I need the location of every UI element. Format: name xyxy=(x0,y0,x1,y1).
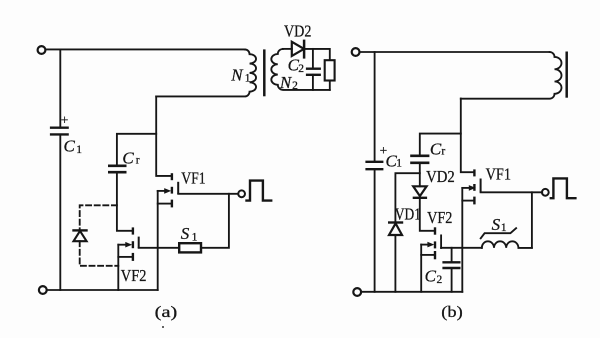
diode VD2 (b) xyxy=(413,186,427,198)
wire left rail upper (a) xyxy=(59,49,61,127)
inductor S1 (b) xyxy=(482,241,532,248)
transformer secondary N2 (a) xyxy=(271,49,330,90)
svg-text:C: C xyxy=(64,136,76,155)
svg-text:VF2: VF2 xyxy=(427,208,452,227)
svg-text:S: S xyxy=(181,224,190,243)
resistor S1 (a) xyxy=(179,243,201,252)
transistor VF1 (a) xyxy=(158,173,179,207)
wire VF2 source down (a) xyxy=(117,245,119,290)
diode VD1 (b) xyxy=(388,223,403,236)
svg-text:2: 2 xyxy=(298,63,304,75)
terminal input+ (a) xyxy=(38,46,46,54)
wire VF2 gate to S1 (b) xyxy=(441,247,482,249)
svg-text:C: C xyxy=(122,149,134,168)
wire left rail lower (a) xyxy=(59,134,61,290)
wire top rail (b) xyxy=(360,51,550,53)
transformer core (b) xyxy=(565,52,568,98)
wire left rail lower (b) xyxy=(374,169,376,292)
capacitor C1 (b) xyxy=(365,162,383,169)
transformer primary N1 (a) xyxy=(156,49,256,96)
capacitor C1 (a) xyxy=(50,128,69,135)
wire VD1 branch lower (b) xyxy=(394,235,396,292)
wire secondary top right segment (a) xyxy=(304,49,330,60)
terminal input+ (b) xyxy=(352,48,360,56)
speck comma (a) xyxy=(162,326,164,328)
svg-text:VF1: VF1 xyxy=(181,169,205,188)
terminal input- (a) xyxy=(39,286,47,294)
wire VF1 source down (a) xyxy=(157,191,159,290)
svg-text:1: 1 xyxy=(245,73,251,85)
wire VF2 source down (b) xyxy=(420,245,422,292)
wire bottom rail (a) xyxy=(47,289,158,291)
svg-text:N: N xyxy=(279,73,293,92)
svg-text:r: r xyxy=(441,146,445,158)
svg-text:1: 1 xyxy=(76,144,82,156)
wire Cr to VD2 (b) xyxy=(419,163,421,187)
capacitor C2 (a) xyxy=(306,49,321,90)
diode body (a) xyxy=(72,230,87,241)
wire top rail (a) xyxy=(46,48,245,50)
svg-text:1: 1 xyxy=(501,222,507,234)
wire secondary top left segment (a) xyxy=(283,48,292,50)
svg-text:+: + xyxy=(61,112,69,127)
svg-text:2: 2 xyxy=(437,274,443,286)
svg-text:VD2: VD2 xyxy=(284,22,311,41)
svg-text:1: 1 xyxy=(192,232,198,244)
wire S1 to gate node (b) xyxy=(531,192,533,247)
svg-text:VD1: VD1 xyxy=(395,204,421,223)
wire VF2 gate to S1 (a) xyxy=(139,247,180,249)
capacitor Cr (a) xyxy=(108,134,156,172)
wire VF2 drain feed (b) xyxy=(420,198,434,231)
transformer primary (b) xyxy=(461,52,562,99)
wire VF1 source down (b) xyxy=(461,188,463,292)
wire left rail upper (b) xyxy=(374,52,376,162)
resistor load (a) xyxy=(325,60,335,90)
pulse waveform (a) xyxy=(245,181,272,201)
wire S1 to gate node (a) xyxy=(201,194,229,248)
transistor VF2 (b) xyxy=(421,227,441,259)
wire VD1 branch upper (b) xyxy=(395,173,419,222)
terminal drive (a) xyxy=(238,190,245,197)
capacitor Cr (b) xyxy=(410,134,461,163)
capacitor C2 (b) xyxy=(442,248,460,292)
transformer core (a) xyxy=(263,49,266,96)
svg-text:S: S xyxy=(492,215,501,234)
transistor VF1 (b) xyxy=(462,169,480,204)
svg-text:N: N xyxy=(230,65,244,84)
wire VF1 gate to drive node (b) xyxy=(481,191,543,193)
svg-text:C: C xyxy=(425,267,437,286)
svg-text:VF2: VF2 xyxy=(121,266,147,285)
svg-text:2: 2 xyxy=(292,80,298,92)
wire VF2 drain feed (a) xyxy=(117,172,132,231)
svg-text:C: C xyxy=(430,139,442,158)
wire VF1 gate to drive node (a) xyxy=(178,193,238,195)
slash over S1 (b) xyxy=(481,228,516,238)
svg-text:1: 1 xyxy=(396,158,402,170)
terminal input- (b) xyxy=(353,288,361,296)
svg-text:(b): (b) xyxy=(441,302,462,321)
wire VF1 drain feed (a) xyxy=(156,96,171,175)
dashed body-diode branch (a) xyxy=(80,205,119,265)
svg-text:VD2: VD2 xyxy=(426,167,455,186)
transistor VF2 (a) xyxy=(118,227,138,261)
svg-text:r: r xyxy=(136,155,140,167)
diode VD2 (a) xyxy=(292,40,304,59)
terminal drive (b) xyxy=(542,189,549,196)
wire bottom rail (b) xyxy=(361,291,462,293)
pulse waveform (b) xyxy=(550,178,577,198)
wire VF1 drain feed (b) xyxy=(461,99,474,173)
svg-text:(a): (a) xyxy=(155,302,178,321)
svg-text:VF1: VF1 xyxy=(486,165,511,184)
